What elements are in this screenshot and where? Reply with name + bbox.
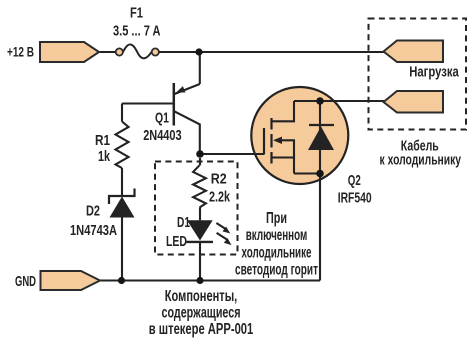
svg-text:Компоненты,: Компоненты, [165, 288, 238, 305]
svg-text:D1: D1 [177, 214, 190, 231]
svg-text:D2: D2 [86, 202, 100, 219]
svg-text:2.2k: 2.2k [209, 188, 230, 205]
svg-text:в штекере APP-001: в штекере APP-001 [149, 321, 254, 338]
svg-text:включенном: включенном [246, 227, 308, 244]
svg-text:1N4743A: 1N4743A [70, 222, 117, 239]
svg-text:IRF540: IRF540 [338, 190, 372, 207]
svg-text:содержащиеся: содержащиеся [162, 304, 241, 321]
svg-text:GND: GND [15, 273, 36, 290]
svg-text:1k: 1k [98, 148, 110, 165]
svg-text:При: При [266, 210, 287, 227]
svg-text:Q1: Q1 [155, 109, 169, 126]
svg-text:светодиод горит: светодиод горит [235, 261, 318, 278]
svg-text:R1: R1 [95, 132, 110, 149]
svg-text:2N4403: 2N4403 [143, 127, 181, 144]
svg-text:Q2: Q2 [348, 172, 361, 189]
svg-text:LED: LED [166, 233, 187, 250]
svg-text:к холодильнику: к холодильнику [380, 152, 462, 169]
svg-text:+12 В: +12 В [7, 44, 34, 60]
svg-text:3.5 ... 7 A: 3.5 ... 7 A [113, 23, 161, 40]
svg-text:F1: F1 [130, 5, 143, 22]
svg-text:R2: R2 [211, 171, 227, 188]
svg-text:холодильнике: холодильнике [242, 244, 312, 261]
svg-text:Нагрузка: Нагрузка [409, 64, 459, 81]
